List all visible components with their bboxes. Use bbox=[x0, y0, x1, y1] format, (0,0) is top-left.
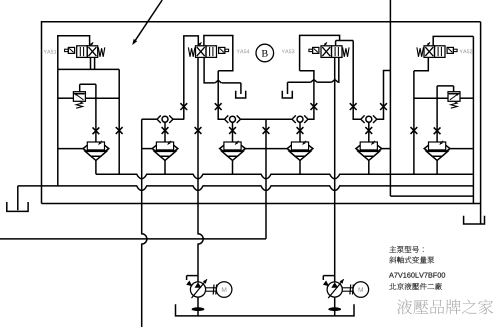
pump model text line2 斜轴式变量泵 bbox=[389, 256, 434, 263]
wire C4 drain bbox=[299, 160, 301, 174]
wire S4 down bbox=[299, 123, 301, 142]
orifice S4 right riser bbox=[311, 103, 318, 110]
orifice S2 bbox=[162, 127, 169, 134]
valve YA52 subbox top bbox=[433, 36, 473, 45]
wire pump1 riser lower bbox=[197, 276, 199, 282]
port bracket M1 bbox=[236, 91, 246, 98]
valve YA52 bottom port wire bbox=[414, 57, 428, 70]
outer box right edge going to right tank bbox=[480, 22, 482, 224]
orifice below RV2 bbox=[434, 127, 441, 134]
solenoid valve YA54 bbox=[188, 42, 228, 57]
pump model text line1 主泵型号 bbox=[389, 246, 423, 253]
orifice S5 left riser bbox=[350, 103, 357, 110]
wire C3 drain bbox=[232, 160, 234, 174]
label YA52 bbox=[460, 49, 473, 53]
label YA54 bbox=[237, 49, 250, 53]
tank bus lower (box bottom) bbox=[42, 203, 481, 205]
orifice on section6 left wire bbox=[411, 127, 418, 134]
valve YA53 subbox bbox=[300, 35, 340, 70]
wire S2 left branch bbox=[142, 118, 157, 120]
shuttle valve S3 bbox=[225, 115, 241, 123]
shuttle valve S5 bbox=[361, 115, 377, 123]
annotation arrow (leader into manifold) bbox=[132, 0, 162, 45]
relief valve RV2 bbox=[414, 86, 474, 142]
relief valve RV1 bbox=[58, 84, 119, 142]
orifice S4 bbox=[297, 127, 304, 134]
valve YA53 top link bbox=[336, 41, 354, 46]
compensator C1 bbox=[83, 141, 109, 161]
shuttle valve S2 bbox=[157, 115, 173, 123]
wire S5 down bbox=[368, 123, 370, 142]
wire S4 right branch bbox=[300, 71, 314, 120]
wire pilot to subbox edge bbox=[390, 195, 473, 197]
wire C5 right wing bbox=[382, 148, 391, 150]
wire C4 left wing bbox=[266, 148, 287, 150]
wire C5 drain bbox=[368, 160, 370, 174]
pump model text line4 北京液压件二厂 bbox=[389, 283, 442, 290]
wire S3-S4 link bbox=[240, 118, 292, 120]
enclosure box (manifold outline) bbox=[42, 22, 481, 204]
valve YA54 right bridge bbox=[204, 36, 233, 71]
wire C6 right wing bbox=[450, 148, 473, 150]
main reservoir bbox=[176, 304, 355, 316]
valve YA54 left bridge bbox=[184, 36, 199, 119]
orifice on section1 right edge bbox=[116, 127, 123, 134]
compensator C2 bbox=[152, 141, 178, 161]
wire C3 right wing bbox=[245, 148, 266, 150]
valve YA51 subbox top bbox=[58, 36, 90, 70]
compensator C6 bbox=[424, 141, 450, 161]
pump model text line3 A7V160LV7BF00 bbox=[389, 273, 445, 278]
subbox right edge wire bbox=[472, 36, 474, 204]
wire load-sense line down-left bbox=[142, 119, 147, 327]
wire S5 left branch bbox=[353, 41, 360, 120]
section6 left wire bbox=[413, 71, 415, 174]
solenoid valve YA53 bbox=[309, 42, 349, 57]
valve YA53 bottom port wire bbox=[288, 57, 339, 94]
valve YA51 bottom ports bbox=[91, 57, 95, 69]
wire P2 suction bbox=[334, 297, 336, 316]
compensator C4 bbox=[287, 141, 313, 161]
tank bus upper bbox=[18, 186, 474, 191]
wire C1 left wing bbox=[58, 148, 84, 150]
orifice S5 right riser bbox=[380, 103, 387, 110]
wire S5 right branch bbox=[377, 71, 391, 120]
orifice below RV1 bbox=[93, 127, 100, 134]
wire P1 suction bbox=[197, 297, 199, 316]
wire C1 drain bbox=[95, 160, 97, 174]
watermark 液压品牌之家 bbox=[397, 299, 493, 314]
orifice on YA54 left riser bbox=[180, 103, 187, 110]
wire S3 down bbox=[232, 123, 234, 142]
section1 box top edge bbox=[58, 68, 119, 70]
wire LS trunk down bbox=[265, 119, 267, 239]
wire S2 right branch bbox=[173, 118, 184, 120]
orifice S3 left riser bbox=[215, 103, 222, 110]
wire LS trunk to left edge bbox=[0, 238, 266, 240]
variable pump P2 bbox=[323, 276, 369, 312]
wire pump1 pressure riser bbox=[198, 57, 203, 275]
solenoid valve YA52 bbox=[417, 42, 457, 57]
wire C2 left wing bbox=[142, 148, 152, 150]
variable pump P1 bbox=[186, 276, 232, 312]
shuttle valve S4 bbox=[292, 115, 308, 123]
gauge circle B bbox=[256, 44, 274, 62]
section1 right edge wire bbox=[118, 69, 120, 174]
label YA51 bbox=[44, 50, 57, 54]
orifice LS trunk bbox=[263, 127, 270, 134]
compensator C5 bbox=[356, 141, 382, 161]
section1 left edge wire bbox=[57, 69, 59, 185]
right tank bbox=[464, 216, 485, 224]
solenoid valve YA51 bbox=[65, 42, 105, 57]
compensator C3 bbox=[220, 141, 246, 161]
left tank bbox=[7, 202, 28, 211]
wire pilot from top edge bbox=[389, 0, 391, 196]
drain rail bbox=[96, 174, 473, 179]
orifice pump1 riser bbox=[195, 127, 202, 134]
orifice S5 bbox=[365, 127, 372, 134]
wire C6 drain bbox=[436, 160, 438, 174]
label YA53 bbox=[282, 49, 295, 53]
wire pump2 pressure riser bbox=[334, 57, 336, 282]
left tank pipe bbox=[17, 186, 19, 210]
wire S3 left branch bbox=[218, 71, 224, 120]
valve YA54 bottom port wire bbox=[204, 57, 241, 94]
wire S2 down bbox=[164, 123, 166, 142]
port bracket M2 bbox=[282, 91, 292, 98]
orifice S3 bbox=[229, 127, 236, 134]
wire C2 drain bbox=[164, 160, 166, 174]
